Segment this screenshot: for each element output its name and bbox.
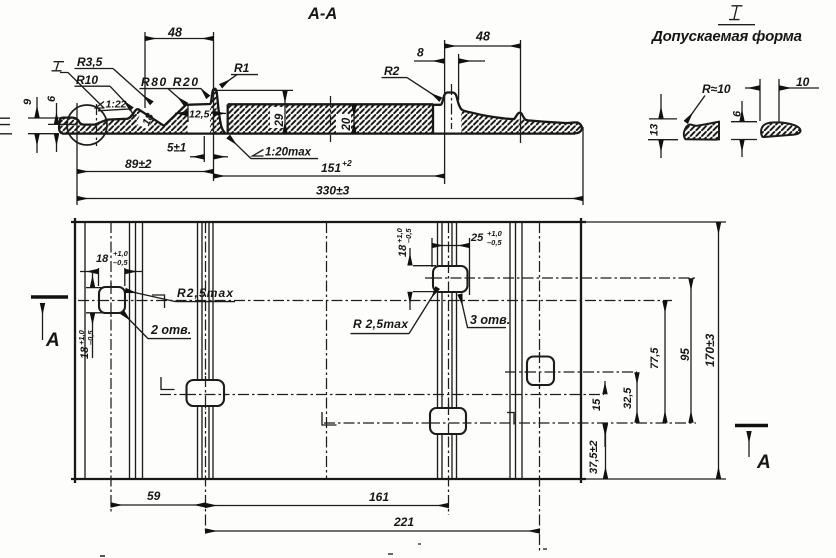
dim 48 top-left: extension lines [145, 32, 214, 181]
dim 5±1 [203, 136, 205, 162]
svg-text:2 отв.: 2 отв. [150, 323, 191, 337]
corner bracket on row E [322, 412, 337, 425]
rib line group B [198, 222, 214, 479]
profile hatched body: right tapered part [461, 110, 582, 134]
small bump centerline / 48 extension [520, 40, 522, 143]
rib line group D [510, 222, 522, 479]
white backers for rotated dims 29 / 20 / 18 [270, 107, 286, 128]
section arrow right: arrow [748, 432, 750, 458]
svg-text:15: 15 [591, 398, 603, 411]
dim 48 line [145, 38, 214, 40]
svg-text:18: 18 [397, 244, 409, 257]
dim 8 extension lines [445, 40, 459, 184]
svg-text:–0,5: –0,5 [86, 330, 95, 345]
svg-text:20: 20 [341, 117, 353, 131]
dim 18 vertical left of hole1 [86, 288, 104, 313]
rib line group A [130, 222, 143, 479]
rotated 18 on incline [140, 111, 157, 128]
dim 6 text [46, 95, 58, 102]
row B centerline [78, 300, 672, 302]
detail label I (hand-drawn serif I) [56, 63, 59, 71]
dim 48 right [445, 45, 521, 47]
scan specks bottom [100, 555, 105, 557]
svg-text:+1,0: +1,0 [77, 329, 86, 345]
dim 6 right detail [731, 122, 757, 140]
dim 18 vertical left of hole3 [413, 266, 436, 292]
dim 29 arrows [284, 91, 286, 133]
rib centerline [451, 84, 453, 129]
centerline crosses through holes [98, 283, 126, 317]
svg-text:89±2: 89±2 [125, 157, 152, 171]
svg-text:13: 13 [649, 124, 661, 136]
right dim 77,5 [664, 301, 666, 422]
dim 25 above hole3 [432, 238, 470, 295]
svg-text:151: 151 [321, 161, 341, 175]
svg-text:+1,0: +1,0 [113, 249, 129, 258]
scan-edge ticks far left [0, 118, 12, 134]
svg-text:77,5: 77,5 [649, 347, 661, 369]
slab right edge [432, 104, 434, 133]
svg-text:R3,5: R3,5 [77, 55, 103, 69]
dim 20 [353, 105, 355, 133]
slab left edge [227, 104, 229, 133]
svg-text:–0,5: –0,5 [113, 258, 128, 267]
svg-text:6: 6 [46, 95, 58, 102]
svg-text:A: A [45, 330, 60, 351]
slab top edge [228, 103, 433, 105]
white gap behind 12,5 text zone [188, 105, 211, 133]
hole column centerline x=539.5 [539, 222, 541, 552]
right dim 37,5±2 [605, 424, 607, 479]
section arrow right: bar [735, 424, 768, 428]
svg-text:48: 48 [167, 26, 182, 40]
svg-text:12,5: 12,5 [189, 109, 210, 121]
svg-text:37,5±2: 37,5±2 [588, 440, 600, 474]
hole 2 [187, 380, 225, 406]
detail circle I [67, 105, 107, 145]
right dim 32,5 [636, 373, 638, 423]
dim 10 arrows [745, 87, 759, 89]
hole 1 [99, 287, 125, 313]
svg-text:8: 8 [417, 46, 424, 60]
svg-text:9: 9 [22, 98, 34, 105]
svg-text:161: 161 [369, 490, 389, 504]
dim 9 text [22, 98, 34, 105]
dim 18 horizontal above hole1 [99, 268, 125, 286]
dim 330±3 [582, 127, 584, 205]
row C centerline [505, 371, 637, 373]
dim 12,5 [187, 104, 189, 122]
row E centerline [324, 422, 696, 424]
dim 89±2 [76, 103, 78, 205]
right tapered top edge with small bump [462, 110, 582, 133]
rib line group C [438, 222, 457, 479]
svg-text:18: 18 [96, 253, 109, 265]
hole column centerline x=205.5 [205, 222, 207, 533]
svg-text:A-A: A-A [307, 5, 337, 23]
svg-text:R≈10: R≈10 [702, 82, 731, 96]
bottom dim 161 [206, 505, 449, 507]
svg-text:–0,5: –0,5 [404, 228, 413, 243]
corner bracket on row B [152, 295, 165, 308]
dim 8 arrows [414, 60, 444, 62]
dim 13 [648, 119, 678, 140]
svg-text:A: A [756, 452, 771, 473]
svg-text:5±1: 5±1 [167, 143, 186, 155]
svg-text:29: 29 [274, 113, 286, 127]
svg-text:Допускаемая форма: Допускаемая форма [650, 28, 802, 45]
left lip blob (hatched) [684, 122, 719, 140]
svg-text:R2,5max: R2,5max [177, 286, 234, 300]
profile outline: top edge left portion [59, 89, 225, 134]
svg-text:6: 6 [732, 110, 744, 117]
svg-text:59: 59 [147, 489, 161, 503]
section arrow left: bar [31, 295, 68, 299]
bottom dim 221 [206, 530, 540, 532]
svg-text:32,5: 32,5 [622, 387, 634, 409]
svg-text:–0,5: –0,5 [487, 238, 502, 247]
corner bracket on row D [161, 377, 175, 390]
plate right edge [580, 218, 582, 483]
taper label 1:20max with leader [253, 150, 264, 157]
leader from I to circle [60, 73, 104, 109]
dim 9 arrows [36, 97, 38, 117]
plate left edge [74, 218, 76, 483]
taper label 1:22 [96, 102, 105, 109]
section arrow left: arrow [42, 304, 44, 341]
profile hatched body: left part and main slab [59, 89, 433, 134]
svg-text:1:20max: 1:20max [265, 147, 312, 159]
svg-text:+1,0: +1,0 [487, 229, 503, 238]
inner line left end [84, 222, 86, 479]
svg-text:+1,0: +1,0 [395, 227, 404, 243]
svg-text:25: 25 [470, 232, 484, 244]
dim 151+2 [214, 175, 445, 177]
svg-text:170±3: 170±3 [703, 333, 717, 367]
channel top line and rib bump R2 [433, 93, 462, 111]
svg-text:R10: R10 [76, 73, 98, 87]
dim 9 extension lines [28, 118, 76, 134]
svg-text:R80 R20: R80 R20 [141, 75, 198, 89]
row D centerline [160, 394, 604, 396]
svg-text:R2: R2 [384, 64, 400, 78]
right dim 15 [604, 381, 606, 394]
right lip blob (hatched) [761, 122, 800, 137]
corner bracket on row E right [507, 413, 514, 425]
hole row 1 centerline column x=111 [110, 222, 112, 512]
row A centerline [425, 277, 696, 279]
hole 3 [433, 266, 468, 292]
hole 4 [430, 408, 466, 434]
groove centerline near lip [96, 104, 98, 146]
right dim 170±3 [718, 223, 720, 478]
dim 6 arrows [56, 103, 58, 124]
svg-text:3 отв.: 3 отв. [470, 313, 510, 327]
svg-text:95: 95 [680, 348, 692, 361]
bottom dim 59 [111, 504, 206, 506]
right dim 95 [690, 279, 692, 423]
svg-text:R1: R1 [234, 61, 250, 75]
hole column centerline x=448.5 [448, 222, 450, 515]
bottom edge of section [62, 132, 575, 134]
svg-text:18: 18 [79, 346, 91, 359]
svg-text:330±3: 330±3 [316, 184, 350, 198]
hole 5 [527, 357, 554, 386]
svg-text:10: 10 [796, 75, 810, 89]
dim 29: top level extension line [214, 89, 294, 91]
svg-text:48: 48 [475, 30, 490, 44]
dim 10 extension lines [760, 79, 779, 122]
detail title I [734, 7, 737, 20]
svg-text:221: 221 [393, 515, 414, 529]
svg-text:+2: +2 [342, 158, 352, 168]
plate outline top edge (extended right for 170 dim) [71, 221, 586, 223]
dim 29 text [274, 113, 286, 127]
plate outline bottom edge (extended right) [71, 478, 586, 480]
middle axis centerline x=326.5 [326, 222, 328, 479]
centerline in slab at x=330 [330, 96, 332, 142]
svg-text:R 2,5max: R 2,5max [353, 317, 409, 331]
